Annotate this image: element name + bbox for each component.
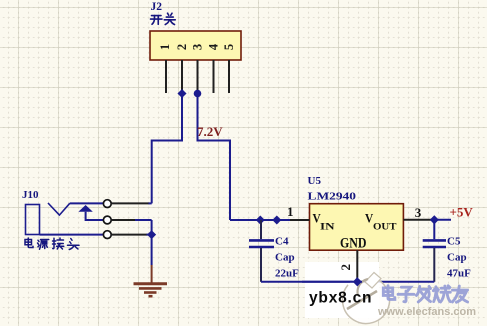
svg-text:C4: C4	[275, 236, 289, 248]
svg-text:ybx8.cn: ybx8.cn	[309, 290, 372, 307]
svg-text:3: 3	[190, 44, 204, 50]
svg-text:7.2V: 7.2V	[197, 124, 223, 139]
svg-text:47uF: 47uF	[447, 268, 471, 280]
svg-text:+5V: +5V	[450, 205, 474, 220]
svg-text:LM2940: LM2940	[308, 191, 357, 203]
svg-text:GND: GND	[340, 236, 367, 252]
svg-text:1: 1	[287, 204, 294, 219]
svg-text:2: 2	[338, 264, 353, 271]
svg-text:OUT: OUT	[373, 222, 397, 232]
svg-text:5: 5	[222, 44, 236, 50]
svg-text:1: 1	[158, 44, 172, 50]
svg-text:4: 4	[206, 43, 220, 50]
svg-text:IN: IN	[320, 222, 335, 232]
svg-text:22uF: 22uF	[275, 268, 299, 280]
svg-text:3: 3	[415, 205, 422, 220]
svg-text:U5: U5	[308, 175, 322, 187]
svg-text:Cap: Cap	[447, 252, 467, 264]
svg-text:C5: C5	[447, 236, 461, 248]
svg-text:J10: J10	[22, 189, 39, 201]
svg-text:Cap: Cap	[275, 252, 295, 264]
svg-text:www.elecfans.com: www.elecfans.com	[377, 306, 476, 318]
svg-text:J2: J2	[151, 1, 163, 13]
svg-text:2: 2	[175, 44, 189, 50]
